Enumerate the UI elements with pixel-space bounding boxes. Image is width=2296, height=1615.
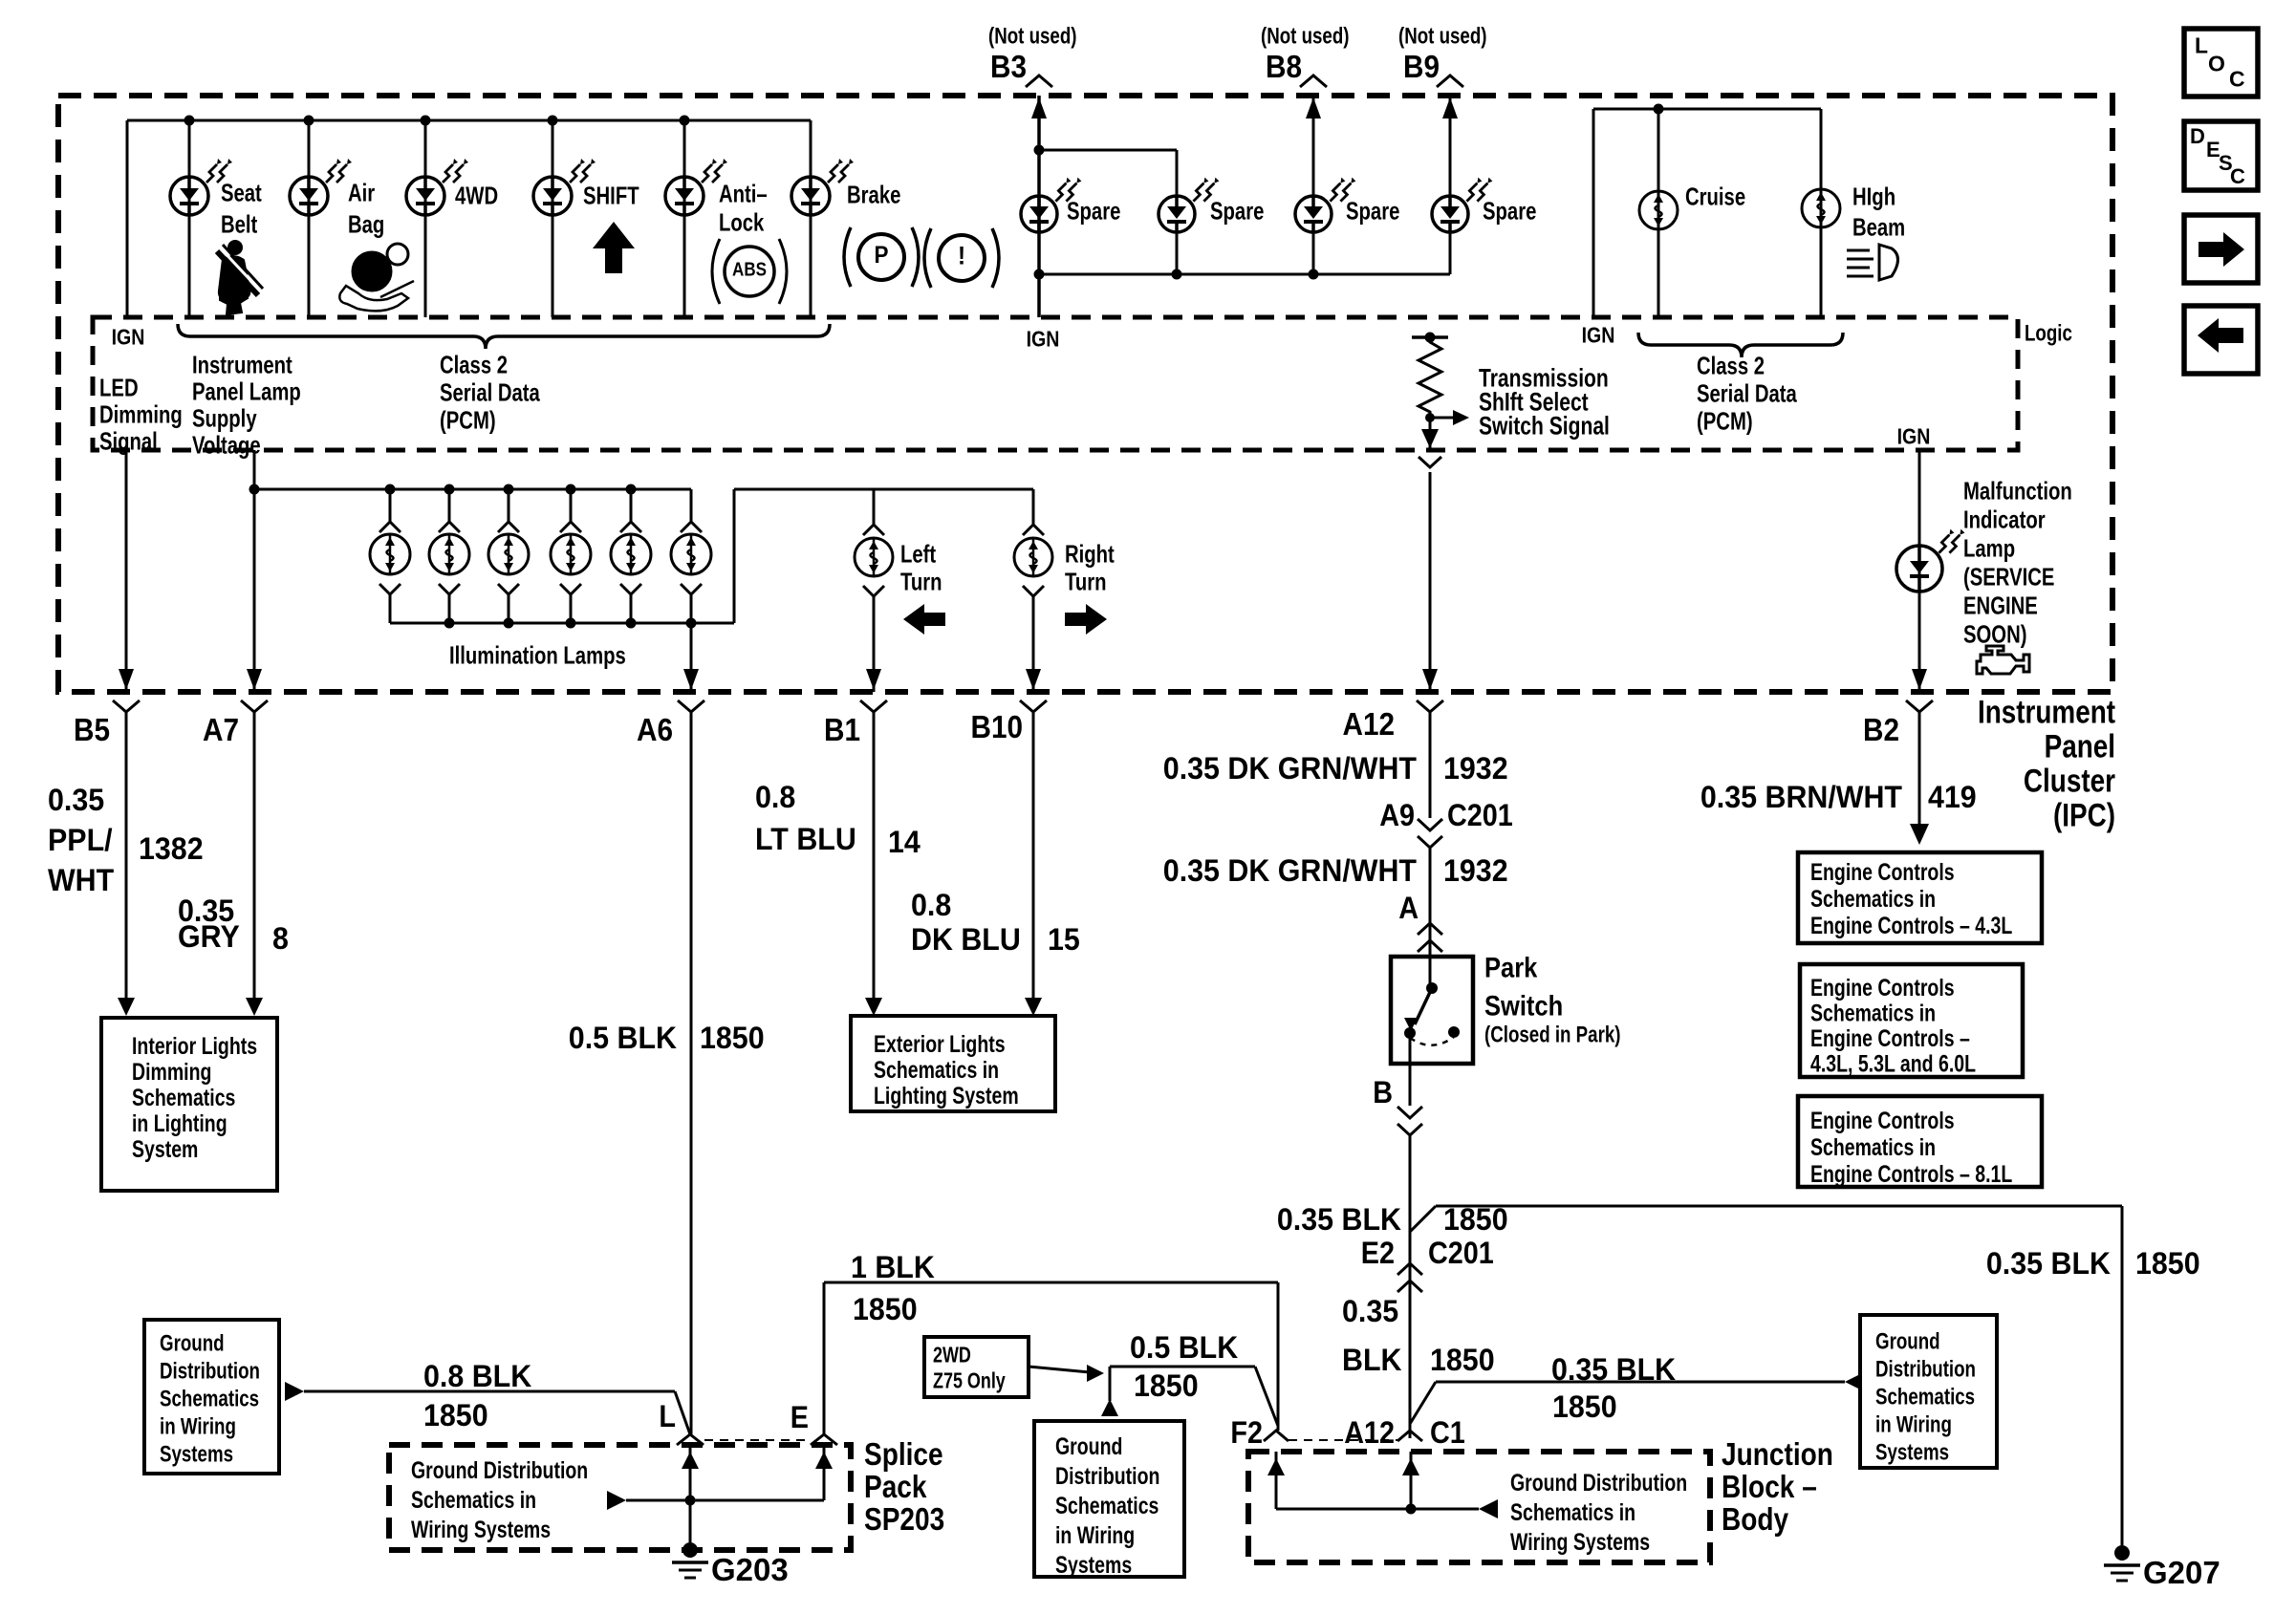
svg-text:Panel: Panel <box>2045 729 2115 765</box>
svg-text:Ground Distribution: Ground Distribution <box>411 1457 588 1484</box>
svg-text:(Not used): (Not used) <box>1398 23 1487 49</box>
svg-text:0.35: 0.35 <box>1342 1294 1398 1328</box>
svg-text:Wiring Systems: Wiring Systems <box>411 1517 551 1543</box>
svg-text:Turn: Turn <box>900 568 942 596</box>
svg-text:Signal: Signal <box>99 427 158 456</box>
svg-text:Seat: Seat <box>221 179 262 207</box>
svg-text:Belt: Belt <box>221 210 258 239</box>
svg-text:C: C <box>2229 67 2245 92</box>
svg-text:IGN: IGN <box>112 325 145 350</box>
svg-text:Dimming: Dimming <box>99 400 183 429</box>
svg-text:Schematics in: Schematics in <box>1510 1499 1635 1526</box>
svg-text:Schematics: Schematics <box>1055 1493 1159 1519</box>
svg-text:in Wiring: in Wiring <box>1055 1522 1135 1549</box>
svg-text:Left: Left <box>900 540 936 569</box>
svg-text:Switch Signal: Switch Signal <box>1479 411 1610 440</box>
svg-text:LED: LED <box>99 374 139 402</box>
svg-text:1850: 1850 <box>853 1292 918 1326</box>
svg-text:Engine Controls: Engine Controls <box>1810 975 1955 1001</box>
svg-text:0.5 BLK: 0.5 BLK <box>569 1021 677 1055</box>
svg-text:Malfunction: Malfunction <box>1963 477 2072 506</box>
svg-text:Voltage: Voltage <box>192 431 261 460</box>
svg-text:Class 2: Class 2 <box>440 351 508 379</box>
svg-text:ENGINE: ENGINE <box>1963 592 2038 620</box>
svg-text:E: E <box>791 1400 809 1434</box>
svg-text:(PCM): (PCM) <box>1697 407 1753 436</box>
svg-text:Wiring Systems: Wiring Systems <box>1510 1529 1650 1556</box>
svg-text:HIgh: HIgh <box>1852 183 1895 211</box>
svg-text:A12: A12 <box>1344 1415 1395 1450</box>
svg-text:(Not used): (Not used) <box>988 23 1077 49</box>
svg-text:8: 8 <box>272 921 289 956</box>
svg-text:0.5 BLK: 0.5 BLK <box>1130 1330 1238 1365</box>
svg-text:1850: 1850 <box>423 1398 488 1432</box>
svg-text:Spare: Spare <box>1210 197 1264 226</box>
svg-text:LT BLU: LT BLU <box>755 822 856 856</box>
svg-text:Lighting System: Lighting System <box>874 1083 1019 1109</box>
svg-text:Schematics in: Schematics in <box>874 1057 999 1084</box>
svg-text:419: 419 <box>1928 780 1977 814</box>
svg-text:0.35 BRN/WHT: 0.35 BRN/WHT <box>1700 780 1903 814</box>
svg-text:Class 2: Class 2 <box>1697 352 1765 380</box>
svg-text:B2: B2 <box>1863 712 1899 747</box>
svg-text:C201: C201 <box>1428 1236 1494 1270</box>
svg-text:1850: 1850 <box>1552 1389 1617 1424</box>
svg-text:1850: 1850 <box>1134 1368 1199 1403</box>
svg-text:A12: A12 <box>1343 706 1396 742</box>
svg-text:0.35 DK GRN/WHT: 0.35 DK GRN/WHT <box>1163 853 1418 888</box>
svg-text:Spare: Spare <box>1483 197 1536 226</box>
svg-text:B9: B9 <box>1403 49 1440 84</box>
svg-text:B5: B5 <box>74 712 110 747</box>
svg-text:Cluster: Cluster <box>2024 764 2115 800</box>
svg-text:Interior Lights: Interior Lights <box>132 1033 257 1060</box>
svg-text:2WD: 2WD <box>933 1343 971 1367</box>
svg-text:B10: B10 <box>971 709 1024 744</box>
svg-text:Engine Controls –: Engine Controls – <box>1810 1025 1970 1052</box>
svg-text:Ground: Ground <box>1875 1328 1940 1354</box>
svg-text:PPL/: PPL/ <box>48 823 113 857</box>
svg-text:1850: 1850 <box>1430 1343 1495 1377</box>
svg-text:!: ! <box>958 241 965 269</box>
svg-text:Anti–: Anti– <box>719 180 768 208</box>
svg-text:Schematics in: Schematics in <box>1810 1001 1936 1027</box>
svg-text:P: P <box>875 242 889 269</box>
svg-text:Serial Data: Serial Data <box>1697 379 1797 408</box>
svg-text:Engine Controls: Engine Controls <box>1810 1108 1955 1134</box>
svg-text:Logic: Logic <box>2025 320 2072 346</box>
svg-text:Turn: Turn <box>1065 568 1107 596</box>
svg-text:IGN: IGN <box>1027 327 1060 352</box>
svg-text:Ground: Ground <box>1055 1433 1122 1460</box>
svg-text:Spare: Spare <box>1067 197 1120 226</box>
svg-text:in Wiring: in Wiring <box>160 1413 236 1439</box>
svg-text:1850: 1850 <box>700 1021 765 1055</box>
svg-text:Lamp: Lamp <box>1963 534 2015 563</box>
svg-text:Instrument: Instrument <box>192 351 292 379</box>
svg-text:4WD: 4WD <box>455 182 498 210</box>
svg-text:Right: Right <box>1065 540 1115 569</box>
svg-text:SHIFT: SHIFT <box>583 182 639 210</box>
svg-text:0.35 BLK: 0.35 BLK <box>1551 1352 1676 1387</box>
svg-text:A6: A6 <box>637 712 673 747</box>
svg-text:0.8 BLK: 0.8 BLK <box>423 1359 531 1393</box>
svg-text:Systems: Systems <box>1875 1439 1949 1465</box>
svg-text:O: O <box>2208 52 2225 76</box>
svg-text:1850: 1850 <box>2135 1246 2200 1281</box>
svg-text:0.35: 0.35 <box>48 783 104 817</box>
svg-text:Brake: Brake <box>847 181 900 209</box>
svg-text:A7: A7 <box>203 712 239 747</box>
svg-text:0.35 DK GRN/WHT: 0.35 DK GRN/WHT <box>1163 751 1418 786</box>
svg-text:E2: E2 <box>1361 1236 1395 1270</box>
svg-text:Splice: Splice <box>864 1436 943 1472</box>
svg-text:DK BLU: DK BLU <box>911 922 1021 957</box>
svg-text:14: 14 <box>888 825 921 859</box>
svg-text:Pack: Pack <box>864 1469 927 1504</box>
svg-text:(Closed in Park): (Closed in Park) <box>1484 1022 1621 1047</box>
svg-text:1 BLK: 1 BLK <box>851 1250 935 1284</box>
svg-text:(IPC): (IPC) <box>2053 798 2115 834</box>
svg-text:F2: F2 <box>1230 1415 1263 1450</box>
svg-text:ABS: ABS <box>732 259 767 280</box>
svg-text:Indicator: Indicator <box>1963 506 2046 534</box>
svg-text:Air: Air <box>348 179 375 207</box>
svg-text:Z75 Only: Z75 Only <box>933 1368 1006 1393</box>
svg-text:Beam: Beam <box>1852 213 1905 242</box>
svg-text:Engine Controls: Engine Controls <box>1810 859 1955 886</box>
svg-text:0.8: 0.8 <box>755 780 795 814</box>
svg-text:Engine Controls – 4.3L: Engine Controls – 4.3L <box>1810 913 2012 939</box>
svg-text:IGN: IGN <box>1582 323 1615 348</box>
svg-text:B8: B8 <box>1266 49 1302 84</box>
svg-text:BLK: BLK <box>1342 1343 1402 1377</box>
svg-text:Schematics: Schematics <box>160 1386 259 1411</box>
svg-text:C1: C1 <box>1430 1415 1465 1450</box>
svg-text:C: C <box>2230 164 2245 188</box>
svg-text:D: D <box>2190 124 2205 148</box>
svg-text:WHT: WHT <box>48 863 115 897</box>
svg-text:SOON): SOON) <box>1963 620 2027 649</box>
svg-text:Distribution: Distribution <box>1055 1463 1159 1490</box>
svg-text:A: A <box>1398 891 1419 925</box>
svg-text:Schematics: Schematics <box>1875 1384 1975 1410</box>
svg-text:Dimming: Dimming <box>132 1059 211 1086</box>
svg-text:0.35 BLK: 0.35 BLK <box>1986 1246 2111 1281</box>
svg-text:Park: Park <box>1484 953 1538 984</box>
svg-text:Schematics in: Schematics in <box>1810 1134 1936 1161</box>
svg-text:Schematics in: Schematics in <box>1810 886 1936 913</box>
svg-text:0.35 BLK: 0.35 BLK <box>1277 1202 1401 1237</box>
svg-text:1932: 1932 <box>1443 853 1508 888</box>
svg-text:(PCM): (PCM) <box>440 406 496 435</box>
svg-text:Spare: Spare <box>1346 197 1399 226</box>
svg-text:(Not used): (Not used) <box>1261 23 1350 49</box>
svg-text:L: L <box>659 1399 676 1433</box>
svg-text:B3: B3 <box>990 49 1027 84</box>
svg-text:Bag: Bag <box>348 210 384 239</box>
svg-text:B: B <box>1373 1075 1393 1109</box>
svg-text:Panel Lamp: Panel Lamp <box>192 377 301 406</box>
svg-text:(SERVICE: (SERVICE <box>1963 563 2054 592</box>
svg-text:G203: G203 <box>711 1552 789 1587</box>
svg-text:Block –: Block – <box>1722 1469 1817 1504</box>
svg-text:Lock: Lock <box>719 208 765 237</box>
svg-text:Supply: Supply <box>192 404 257 433</box>
svg-text:B1: B1 <box>824 712 860 747</box>
svg-text:Cruise: Cruise <box>1685 183 1745 211</box>
svg-text:G207: G207 <box>2143 1555 2220 1590</box>
svg-text:1932: 1932 <box>1443 751 1508 786</box>
svg-text:L: L <box>2195 33 2208 58</box>
svg-text:Ground: Ground <box>160 1330 225 1356</box>
svg-text:0.8: 0.8 <box>911 888 951 922</box>
svg-text:4.3L, 5.3L and 6.0L: 4.3L, 5.3L and 6.0L <box>1810 1051 1976 1078</box>
svg-text:Body: Body <box>1722 1501 1789 1537</box>
svg-text:C201: C201 <box>1447 798 1513 832</box>
svg-text:A9: A9 <box>1379 798 1415 832</box>
svg-text:GRY: GRY <box>178 919 240 954</box>
svg-text:Junction: Junction <box>1722 1436 1833 1472</box>
svg-text:Ground Distribution: Ground Distribution <box>1510 1470 1687 1497</box>
svg-text:Switch: Switch <box>1484 991 1563 1023</box>
svg-text:Schematics in: Schematics in <box>411 1487 536 1514</box>
svg-text:Distribution: Distribution <box>1875 1356 1976 1382</box>
svg-text:1382: 1382 <box>139 831 204 866</box>
svg-text:Engine Controls – 8.1L: Engine Controls – 8.1L <box>1810 1161 2012 1188</box>
svg-text:System: System <box>132 1136 198 1163</box>
svg-text:Serial Data: Serial Data <box>440 378 540 407</box>
svg-text:Instrument: Instrument <box>1978 695 2115 731</box>
svg-text:Systems: Systems <box>1055 1552 1132 1579</box>
svg-text:15: 15 <box>1048 922 1080 957</box>
svg-text:in Wiring: in Wiring <box>1875 1411 1952 1437</box>
svg-text:Schematics: Schematics <box>132 1085 235 1111</box>
svg-text:Systems: Systems <box>160 1441 233 1467</box>
svg-text:Exterior Lights: Exterior Lights <box>874 1031 1006 1058</box>
svg-text:SP203: SP203 <box>864 1501 944 1537</box>
svg-text:Distribution: Distribution <box>160 1358 260 1384</box>
svg-text:IGN: IGN <box>1897 424 1931 449</box>
svg-text:Illumination Lamps: Illumination Lamps <box>449 641 626 670</box>
svg-text:in Lighting: in Lighting <box>132 1110 227 1137</box>
